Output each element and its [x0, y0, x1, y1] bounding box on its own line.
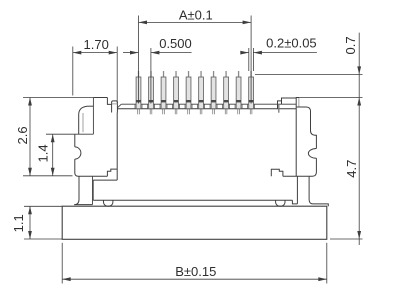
svg-text:1.1: 1.1	[11, 214, 26, 232]
svg-text:4.7: 4.7	[344, 160, 359, 178]
left tower left shoulder	[79, 106, 87, 114]
dim A arrow left	[139, 21, 148, 25]
left solder tab nub	[112, 101, 118, 113]
dim 0.7/4.7 line	[358, 33, 360, 245]
left tower outer edge upper	[74, 134, 76, 147]
housing right bottom step	[292, 200, 297, 204]
dim 1.70 line	[73, 52, 117, 54]
right tower latch notch	[308, 149, 316, 159]
housing underside	[93, 199, 292, 201]
svg-text:B±0.15: B±0.15	[175, 264, 216, 279]
dim 0.2 ext left	[248, 48, 250, 71]
dim 1.1 arrow top	[28, 206, 32, 214]
dim 0.500 line right	[151, 52, 192, 54]
dim 1.4 arrow top	[51, 134, 55, 142]
svg-text:2.6: 2.6	[15, 126, 30, 144]
dim A ext line left	[138, 16, 140, 104]
dim 0.2 line left	[241, 52, 249, 54]
dim A line	[139, 21, 252, 23]
dim 0.2 arrow left	[240, 51, 249, 55]
left tower west wall upper	[78, 115, 80, 135]
ext line housing top right	[296, 97, 362, 99]
left ledge	[93, 179, 117, 181]
left pedestal ledge edge	[92, 180, 94, 200]
dim B ext right	[326, 243, 328, 284]
dim 1.4 arrow bottom	[51, 168, 55, 176]
left tower shoulder shelf	[87, 105, 93, 107]
dim A ext line right	[250, 16, 252, 104]
right tower top wall edge	[298, 98, 300, 107]
svg-text:A±0.1: A±0.1	[179, 8, 213, 23]
svg-text:0.500: 0.500	[159, 36, 192, 51]
housing bar right step	[282, 98, 297, 104]
ext line base bottom right	[330, 238, 363, 240]
ext line tower top left	[23, 97, 93, 99]
ext line base bottom left	[24, 238, 62, 240]
svg-text:1.4: 1.4	[36, 144, 51, 162]
dim 1.1 arrow bottom	[28, 231, 32, 239]
left tower inner vertical	[82, 113, 84, 132]
left tower top edge	[93, 97, 107, 99]
left tower inner edge	[92, 98, 94, 135]
dim 2.6 arrow top	[28, 98, 32, 106]
dim 1.70 ext left	[72, 47, 74, 96]
dim 0.500 arrow right	[151, 51, 160, 55]
right pedestal	[309, 176, 328, 206]
dim 4.7 arrow top	[357, 98, 361, 106]
dim 0.7 arrow top	[357, 66, 361, 74]
left tower inner shelf	[75, 133, 94, 135]
dim 1.4 line	[52, 134, 54, 176]
dim B line	[62, 278, 327, 280]
base block (PCB)	[62, 206, 327, 239]
housing left edge	[116, 113, 118, 181]
svg-text:0.2±0.05: 0.2±0.05	[266, 36, 317, 51]
dim A arrow right	[243, 21, 252, 25]
left solder tab nub inner line	[112, 103, 118, 105]
dim 2.6 arrow bottom	[28, 168, 32, 176]
left contact bump	[104, 200, 113, 206]
housing bar front bottom edge	[117, 108, 296, 110]
left pedestal	[74, 176, 79, 204]
right pedestal left edge	[296, 176, 298, 204]
left tower latch notch	[75, 147, 81, 159]
ext line shelf left	[46, 133, 75, 135]
dim 1.1 line	[29, 206, 31, 239]
svg-text:0.7: 0.7	[343, 36, 358, 54]
dim 1.70 ext right	[116, 47, 118, 104]
dim B ext left	[61, 243, 63, 284]
dim 0.500 ext	[150, 48, 152, 104]
dim B arrow left	[62, 277, 70, 281]
dim 1.70 arrow left	[73, 51, 82, 55]
dim 0.2 line right	[253, 52, 317, 54]
dim 0.500 arrow left	[130, 51, 139, 55]
housing bar right end contact	[278, 101, 282, 113]
left tower top right step	[107, 98, 111, 105]
dim 0.2 arrow right	[253, 51, 262, 55]
left tower outer edge lower	[75, 159, 108, 176]
dim 4.7 arrow bottom	[357, 231, 361, 239]
right tower lower right edge	[283, 158, 317, 176]
right contact bump	[276, 200, 285, 206]
dim B arrow right	[318, 277, 327, 281]
right tower front profile	[297, 107, 317, 149]
dim 1.70 arrow right	[109, 51, 118, 55]
left tower-housing step	[107, 169, 117, 176]
serration ticks	[135, 104, 255, 109]
left pedestal bottom	[74, 204, 92, 206]
right tower left edge	[296, 98, 299, 177]
dim 2.6 line	[29, 98, 31, 176]
left pedestal right edge	[92, 176, 94, 204]
ext line pin tip top right	[255, 73, 363, 75]
ext line tower bottom left	[23, 175, 73, 177]
dim 0.2 ext right	[252, 48, 254, 71]
contact pins row (10 pins)	[136, 71, 253, 114]
right tower left step	[271, 169, 283, 176]
svg-text:1.70: 1.70	[84, 37, 109, 52]
ext line base top left	[24, 205, 62, 207]
housing bar left chamfer	[117, 104, 121, 108]
housing serration top edge	[121, 103, 296, 105]
dim 0.500 line left	[123, 52, 139, 54]
